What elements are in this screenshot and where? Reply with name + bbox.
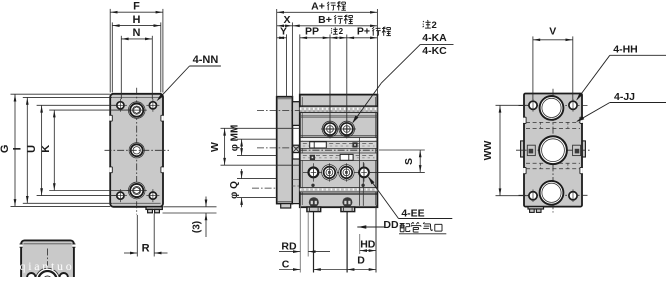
svg-text:PP: PP [305, 26, 319, 38]
svg-text:X: X [283, 14, 290, 26]
svg-text:N: N [133, 27, 141, 39]
svg-text:2: 2 [339, 27, 344, 36]
svg-text:2: 2 [432, 20, 437, 31]
svg-text:4-KC: 4-KC [422, 45, 447, 57]
svg-text:I: I [12, 147, 24, 150]
svg-text:φ Q: φ Q [229, 181, 240, 199]
svg-text:W: W [209, 142, 221, 152]
svg-text:U: U [26, 145, 38, 153]
svg-text:H: H [133, 14, 141, 26]
svg-text:HD: HD [360, 239, 376, 251]
svg-text:RD: RD [281, 240, 297, 252]
svg-text:φ MM: φ MM [230, 125, 241, 152]
svg-text:WW: WW [482, 141, 494, 161]
svg-text:4-EE: 4-EE [401, 207, 424, 219]
svg-text:C: C [282, 259, 290, 271]
svg-text:V: V [549, 26, 556, 38]
svg-text:G: G [0, 145, 11, 154]
svg-text:4-NN: 4-NN [193, 54, 219, 66]
svg-text:F: F [133, 1, 140, 13]
svg-text:A+: A+ [311, 1, 325, 13]
svg-text:Y: Y [280, 26, 287, 38]
svg-text:B+: B+ [318, 14, 332, 26]
svg-text:S: S [403, 158, 415, 165]
svg-text:4-KA: 4-KA [422, 32, 447, 44]
svg-text:4-JJ: 4-JJ [614, 91, 635, 103]
svg-text:R: R [142, 242, 150, 254]
svg-text:K: K [40, 145, 52, 153]
svg-text:(3): (3) [191, 221, 202, 233]
svg-text:DD: DD [383, 219, 399, 231]
svg-text:D: D [357, 255, 365, 267]
svg-text:4-HH: 4-HH [613, 44, 638, 56]
svg-text:qiantuo: qiantuo [20, 259, 75, 273]
svg-text:P+: P+ [357, 26, 370, 38]
